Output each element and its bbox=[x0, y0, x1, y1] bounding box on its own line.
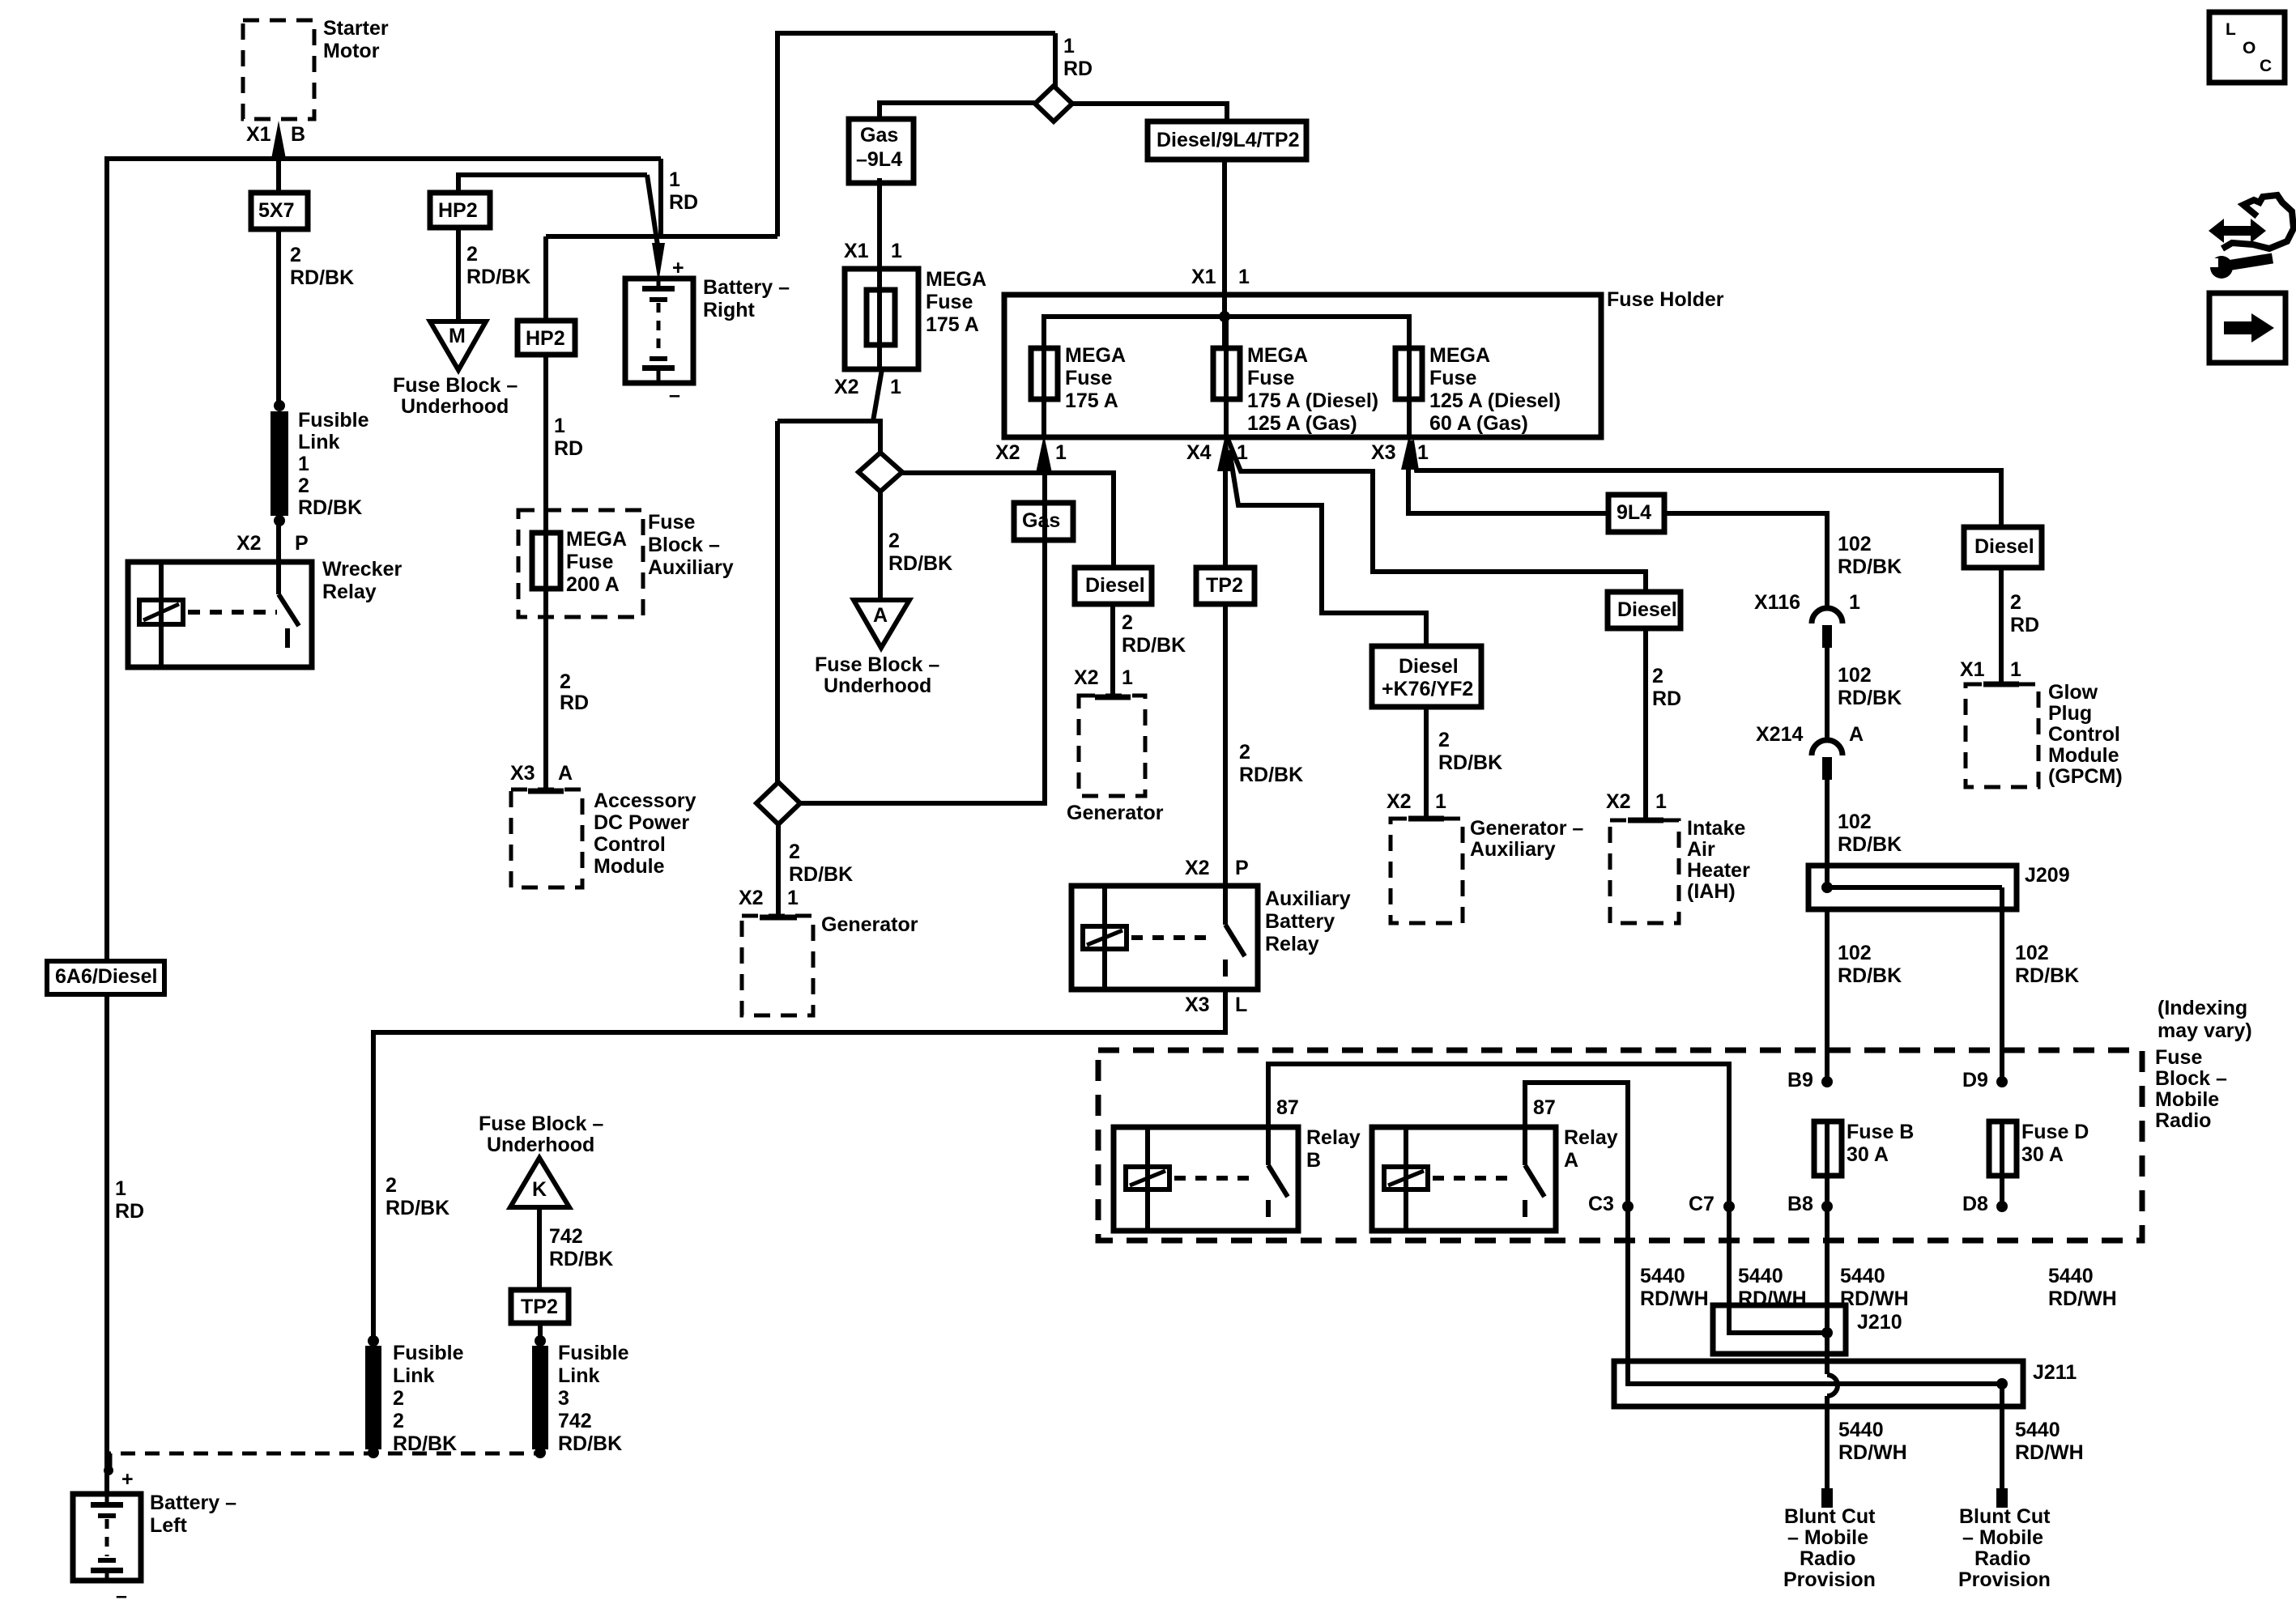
svg-text:2: 2 bbox=[1652, 665, 1663, 687]
svg-text:A: A bbox=[1849, 723, 1864, 746]
svg-text:RD/BK: RD/BK bbox=[789, 863, 853, 886]
pin label 1 X116 bbox=[1849, 591, 1860, 614]
pin label X3 accessory bbox=[510, 762, 535, 785]
wire fuse D to D8 bbox=[2000, 1178, 2004, 1208]
pin label 1 mega fuse bbox=[891, 240, 902, 262]
svg-text:X2: X2 bbox=[1387, 790, 1412, 813]
splice diamond gas mid bbox=[858, 453, 902, 491]
junction dot D8 bbox=[1996, 1201, 2008, 1212]
label 1 RD left rail bbox=[115, 1177, 144, 1223]
svg-text:+: + bbox=[672, 257, 684, 279]
svg-text:2: 2 bbox=[1122, 611, 1133, 634]
label battery left bbox=[150, 1491, 236, 1537]
svg-text:125 A (Gas): 125 A (Gas) bbox=[1247, 412, 1357, 435]
icon forward arrow box bbox=[2209, 293, 2285, 363]
wire HP2 to accessory module bbox=[543, 355, 548, 792]
wire drop into splice S110 bbox=[1053, 33, 1058, 91]
svg-text:Fuse Block –: Fuse Block – bbox=[393, 374, 518, 397]
svg-text:Link: Link bbox=[298, 431, 339, 453]
svg-text:MEGA: MEGA bbox=[1429, 344, 1490, 367]
wire left rail (battery left feed) bbox=[104, 156, 109, 1496]
svg-text:Relay: Relay bbox=[1306, 1126, 1361, 1149]
label 2 RD accessory bbox=[560, 670, 589, 714]
net tag Gas branch bbox=[1014, 503, 1073, 540]
svg-text:Underhood: Underhood bbox=[487, 1134, 594, 1156]
battery left bbox=[73, 1494, 141, 1581]
svg-text:P: P bbox=[1235, 857, 1249, 879]
pin label X2 generator 1 bbox=[739, 887, 764, 909]
wire splice to diesel tag bbox=[1072, 104, 1227, 124]
svg-text:X214: X214 bbox=[1756, 723, 1803, 746]
terminal arrow X3 bbox=[1401, 435, 1417, 470]
svg-text:MEGA: MEGA bbox=[926, 268, 986, 291]
svg-text:RD/BK: RD/BK bbox=[1838, 833, 1902, 856]
wire diamond to diesel tag branch bbox=[902, 473, 1114, 570]
svg-text:Battery –: Battery – bbox=[703, 276, 790, 299]
wire diesel tag to generator 2 bbox=[1110, 604, 1115, 698]
svg-text:Block –: Block – bbox=[2155, 1067, 2227, 1090]
svg-text:Air: Air bbox=[1687, 838, 1715, 861]
label 2 RD/BK starter wire bbox=[290, 244, 354, 289]
svg-text:1: 1 bbox=[1435, 790, 1446, 813]
label 2 RD IAH bbox=[1652, 665, 1681, 710]
svg-text:K: K bbox=[532, 1178, 547, 1201]
svg-text:742: 742 bbox=[549, 1225, 583, 1248]
svg-text:Link: Link bbox=[558, 1364, 599, 1387]
pin label X1 fuse holder bbox=[1191, 266, 1216, 288]
svg-text:M: M bbox=[449, 325, 466, 347]
wire relay A 87 to C3 bbox=[1525, 1083, 1628, 1386]
svg-text:1: 1 bbox=[2010, 658, 2021, 681]
svg-text:6A6/Diesel: 6A6/Diesel bbox=[55, 965, 157, 988]
svg-text:RD/BK: RD/BK bbox=[393, 1432, 457, 1455]
svg-text:X4: X4 bbox=[1186, 441, 1212, 464]
pin label L aux relay bbox=[1235, 994, 1247, 1016]
svg-text:Generator: Generator bbox=[1067, 802, 1164, 824]
fusible link 3 bbox=[532, 1335, 548, 1458]
svg-text:Underhood: Underhood bbox=[824, 674, 931, 697]
svg-text:–9L4: –9L4 bbox=[856, 148, 902, 171]
svg-text:RD: RD bbox=[2010, 614, 2039, 636]
label generator auxiliary bbox=[1470, 817, 1583, 861]
net tag TP2 first bbox=[1196, 568, 1254, 604]
wire main bus from starter/battery-left rail bbox=[107, 156, 661, 161]
svg-text:Module: Module bbox=[594, 855, 665, 878]
fuse D 30A bbox=[1989, 1121, 2017, 1176]
fuse holder box bbox=[1004, 295, 1601, 437]
wire fuse holder X2 wire segment bbox=[1042, 474, 1047, 803]
label 102 RD/BK 3 bbox=[1838, 811, 1902, 856]
svg-text:Mobile: Mobile bbox=[2155, 1088, 2219, 1111]
label C3 bbox=[1588, 1193, 1614, 1215]
label fuse block mobile radio bbox=[2155, 1046, 2227, 1132]
wire X3 to 9L4 bbox=[1408, 444, 1827, 610]
svg-text:Starter: Starter bbox=[323, 17, 389, 40]
label fusible link 1 bbox=[298, 409, 369, 519]
terminal arrow into starter bbox=[271, 121, 286, 159]
svg-text:2: 2 bbox=[1239, 741, 1250, 764]
svg-text:RD/BK: RD/BK bbox=[888, 552, 952, 575]
net tag Diesel IAH bbox=[1608, 592, 1680, 628]
wire riser to top line bbox=[775, 31, 780, 236]
wire D column to blunt cut bbox=[2000, 1384, 2004, 1491]
inline connector X214 bbox=[1812, 740, 1842, 780]
wire branch to gas diamond bbox=[777, 421, 880, 455]
label MEGA fuse 200A bbox=[566, 528, 627, 596]
svg-text:MEGA: MEGA bbox=[1065, 344, 1126, 367]
svg-text:2: 2 bbox=[386, 1174, 397, 1197]
svg-text:5440: 5440 bbox=[1840, 1265, 1885, 1287]
svg-text:Radio: Radio bbox=[2155, 1109, 2211, 1132]
wire X116 to X214 bbox=[1825, 648, 1830, 742]
wire 1 RD diagonal to battery right bbox=[647, 175, 658, 245]
svg-text:RD/BK: RD/BK bbox=[386, 1197, 449, 1219]
svg-text:742: 742 bbox=[558, 1410, 592, 1432]
pin label P wrecker bbox=[295, 532, 309, 555]
junction dot J211 bbox=[1996, 1378, 2008, 1389]
wire aux relay X3 to bus bbox=[373, 989, 1225, 1343]
pin label X2 generator 2 bbox=[1074, 666, 1099, 689]
svg-text:may vary): may vary) bbox=[2158, 1019, 2252, 1042]
label 87 relay B bbox=[1276, 1096, 1299, 1119]
svg-text:Fuse B: Fuse B bbox=[1847, 1121, 1914, 1143]
svg-text:RD/BK: RD/BK bbox=[1239, 764, 1303, 786]
svg-text:C: C bbox=[2260, 57, 2272, 75]
pin label X4 holder bbox=[1186, 441, 1212, 464]
wire HP2 branch top bbox=[458, 175, 647, 195]
svg-text:C7: C7 bbox=[1689, 1193, 1715, 1215]
wire fuse holder bracket bbox=[1044, 317, 1409, 350]
svg-text:1: 1 bbox=[115, 1177, 126, 1200]
label 1 RD hp2 wire bbox=[554, 415, 583, 460]
pin label 1 holder gas bbox=[1055, 441, 1067, 464]
svg-text:1: 1 bbox=[891, 240, 902, 262]
svg-text:1: 1 bbox=[890, 376, 901, 398]
dashed wire battery left to fusible links bbox=[110, 1453, 541, 1467]
svg-text:C3: C3 bbox=[1588, 1193, 1614, 1215]
net tag Diesel/9L4/TP2 bbox=[1148, 121, 1306, 160]
label fuse B bbox=[1847, 1121, 1914, 1166]
label starter motor bbox=[323, 17, 389, 62]
wire K76 tag to generator aux bbox=[1424, 707, 1429, 818]
splice diamond top bbox=[1035, 86, 1072, 121]
wire J209 left leg to B9 bbox=[1825, 909, 1830, 1083]
fuse holder fuse 2 bbox=[1213, 317, 1240, 437]
pin label 1 mega fuse bottom bbox=[890, 376, 901, 398]
wire 5X7 to fusible link 1 bbox=[276, 229, 281, 402]
pin label B bbox=[291, 123, 305, 146]
label relay B bbox=[1306, 1126, 1361, 1172]
svg-text:–: – bbox=[116, 1585, 127, 1607]
svg-text:Diesel: Diesel bbox=[1974, 535, 2034, 558]
net tag Diesel +K76/YF2 bbox=[1372, 646, 1481, 707]
svg-text:RD: RD bbox=[1063, 57, 1093, 80]
label 5440 RD/WH b8 bbox=[1840, 1265, 1909, 1310]
pin label 1 holder X4 bbox=[1237, 441, 1248, 464]
svg-text:RD: RD bbox=[560, 691, 589, 714]
label fuse block underhood K bbox=[479, 1113, 603, 1156]
junction dot fuse holder bbox=[1219, 311, 1230, 322]
label 87 relay A bbox=[1533, 1096, 1556, 1119]
label fusible link 2 bbox=[393, 1342, 464, 1455]
svg-text:200 A: 200 A bbox=[566, 573, 620, 596]
svg-text:X2: X2 bbox=[236, 532, 262, 555]
wire bus to HP2 second bbox=[543, 236, 548, 321]
svg-text:Fusible: Fusible bbox=[393, 1342, 464, 1364]
junction dot B9 bbox=[1821, 1076, 1833, 1087]
label blunt cut B bbox=[1783, 1505, 1876, 1591]
svg-text:Relay: Relay bbox=[1564, 1126, 1618, 1149]
label indexing may vary bbox=[2158, 997, 2252, 1042]
svg-text:102: 102 bbox=[1838, 942, 1872, 964]
svg-text:X3: X3 bbox=[1371, 441, 1396, 464]
svg-text:B9: B9 bbox=[1787, 1069, 1813, 1091]
svg-text:Intake: Intake bbox=[1687, 817, 1745, 840]
svg-text:5440: 5440 bbox=[2015, 1419, 2060, 1441]
svg-text:RD/BK: RD/BK bbox=[1438, 751, 1502, 774]
wire TP2 to fusible link 3 bbox=[538, 1323, 543, 1343]
svg-text:RD: RD bbox=[1652, 687, 1681, 710]
label D9 bbox=[1962, 1069, 1988, 1091]
svg-text:2: 2 bbox=[393, 1410, 404, 1432]
svg-text:1: 1 bbox=[1122, 666, 1133, 689]
svg-text:(Indexing: (Indexing bbox=[2158, 997, 2247, 1019]
relay A bbox=[1372, 1127, 1556, 1231]
net tag Diesel generator 2 bbox=[1075, 568, 1152, 604]
svg-text:Control: Control bbox=[2048, 723, 2120, 746]
svg-text:Fuse D: Fuse D bbox=[2021, 1121, 2089, 1143]
svg-text:Gas: Gas bbox=[860, 124, 898, 147]
fuse block underhood M triangle bbox=[430, 321, 486, 370]
connector HP2 second bbox=[518, 321, 575, 355]
svg-text:175 A (Diesel): 175 A (Diesel) bbox=[1247, 389, 1378, 412]
svg-text:Auxiliary: Auxiliary bbox=[1470, 838, 1556, 861]
svg-text:X2: X2 bbox=[834, 376, 859, 398]
svg-text:X2: X2 bbox=[1074, 666, 1099, 689]
svg-text:Battery: Battery bbox=[1265, 910, 1335, 933]
terminal arrow X4 bbox=[1217, 435, 1233, 471]
svg-text:Fuse: Fuse bbox=[1429, 367, 1476, 389]
label generator 2 bbox=[1067, 802, 1164, 824]
label 5440 RD/WH b lower bbox=[1838, 1419, 1907, 1464]
label fuse block underhood M bbox=[393, 374, 518, 418]
generator 1 dashed box bbox=[742, 916, 813, 1015]
svg-text:RD/BK: RD/BK bbox=[558, 1432, 622, 1455]
svg-text:102: 102 bbox=[2015, 942, 2049, 964]
wire X214 to J209 bbox=[1825, 780, 1830, 887]
wire diamond to A triangle bbox=[878, 491, 883, 600]
svg-text:RD/WH: RD/WH bbox=[1640, 1287, 1709, 1310]
svg-text:RD/BK: RD/BK bbox=[1838, 687, 1902, 709]
label 742 RD/BK bbox=[549, 1225, 613, 1270]
label wrecker relay bbox=[322, 558, 402, 603]
label 2 RD/BK gas mid bbox=[888, 530, 952, 575]
svg-text:Fuse Block –: Fuse Block – bbox=[479, 1113, 603, 1135]
svg-text:Diesel: Diesel bbox=[1399, 655, 1459, 678]
svg-text:Fuse: Fuse bbox=[1247, 367, 1294, 389]
icon wiring harness wrench bbox=[2208, 195, 2294, 279]
label fusible link 3 bbox=[558, 1342, 629, 1455]
svg-text:RD/BK: RD/BK bbox=[466, 266, 530, 288]
pin label X2 holder bbox=[995, 441, 1020, 464]
fuse B 30A bbox=[1814, 1121, 1842, 1176]
svg-text:+K76/YF2: +K76/YF2 bbox=[1382, 678, 1473, 700]
svg-text:A: A bbox=[558, 762, 573, 785]
svg-text:Plug: Plug bbox=[2048, 702, 2092, 725]
relay auxiliary battery bbox=[1071, 886, 1258, 989]
svg-text:Fuse: Fuse bbox=[566, 551, 613, 573]
svg-text:RD/BK: RD/BK bbox=[1838, 555, 1902, 578]
svg-text:O: O bbox=[2243, 39, 2256, 57]
label 102 RD/BK 4 bbox=[1838, 942, 1902, 987]
junction dot battery left positive bbox=[104, 1466, 113, 1475]
pin label X3 holder bbox=[1371, 441, 1396, 464]
svg-text:Motor: Motor bbox=[323, 40, 380, 62]
inline connector X116 bbox=[1812, 608, 1842, 648]
junction dot C7 bbox=[1723, 1201, 1735, 1212]
svg-text:2: 2 bbox=[290, 244, 301, 266]
svg-text:30 A: 30 A bbox=[1847, 1143, 1889, 1166]
wire X4 main to TP2 bbox=[1223, 468, 1228, 570]
label intake air heater bbox=[1687, 817, 1750, 903]
svg-text:Diesel: Diesel bbox=[1085, 574, 1145, 597]
svg-text:2: 2 bbox=[1438, 729, 1450, 751]
label C7 bbox=[1689, 1193, 1715, 1215]
net tag 9L4 bbox=[1608, 495, 1664, 532]
pin label 1 GPCM bbox=[2010, 658, 2021, 681]
svg-text:9L4: 9L4 bbox=[1617, 501, 1651, 524]
svg-text:X3: X3 bbox=[1185, 994, 1210, 1016]
svg-text:Blunt Cut: Blunt Cut bbox=[1959, 1505, 2051, 1528]
glow plug control module dashed box bbox=[1966, 684, 2038, 787]
svg-text:J211: J211 bbox=[2033, 1361, 2077, 1384]
wire X3 to GPCM tag bbox=[1412, 440, 2001, 530]
label mega fuse holder 3 bbox=[1429, 344, 1561, 435]
svg-text:X1: X1 bbox=[844, 240, 869, 262]
svg-text:5440: 5440 bbox=[2048, 1265, 2094, 1287]
svg-text:MEGA: MEGA bbox=[1247, 344, 1308, 367]
svg-text:Blunt Cut: Blunt Cut bbox=[1784, 1505, 1876, 1528]
svg-text:L: L bbox=[1235, 994, 1247, 1016]
fuse block underhood A triangle bbox=[854, 600, 909, 648]
svg-text:Heater: Heater bbox=[1687, 859, 1750, 882]
svg-text:Wrecker: Wrecker bbox=[322, 558, 402, 581]
blunt cut terminal D bbox=[1996, 1488, 2008, 1508]
svg-text:2: 2 bbox=[888, 530, 900, 552]
svg-text:RD/BK: RD/BK bbox=[1122, 634, 1186, 657]
svg-text:Link: Link bbox=[393, 1364, 434, 1387]
label 5440 RD/WH c7 bbox=[1738, 1265, 1807, 1310]
svg-text:Underhood: Underhood bbox=[401, 395, 509, 418]
net tag Diesel GPCM bbox=[1964, 527, 2042, 568]
svg-text:2: 2 bbox=[298, 474, 309, 497]
wire gas branch lower bbox=[800, 473, 1045, 803]
pin label 1 holder X3 bbox=[1417, 441, 1429, 464]
svg-text:2: 2 bbox=[560, 670, 571, 693]
fusible link 1 bbox=[270, 400, 288, 526]
junction dot C3 bbox=[1622, 1201, 1634, 1212]
wire K to TP2 bbox=[537, 1207, 542, 1292]
svg-text:X1: X1 bbox=[246, 123, 271, 146]
fuse block auxiliary dashed box bbox=[518, 510, 643, 617]
label B8 bbox=[1787, 1193, 1813, 1215]
pin label 1 generator aux bbox=[1435, 790, 1446, 813]
wire mega fuse kink bbox=[873, 369, 882, 421]
svg-text:RD/BK: RD/BK bbox=[298, 496, 362, 519]
connector label X214 bbox=[1756, 723, 1803, 746]
svg-text:Relay: Relay bbox=[1265, 933, 1319, 955]
pin label X2 wrecker bbox=[236, 532, 262, 555]
svg-text:1: 1 bbox=[1417, 441, 1429, 464]
pin label X1 bbox=[246, 123, 271, 146]
junction dot D9 bbox=[1996, 1076, 2008, 1087]
pin label X2 IAH bbox=[1606, 790, 1631, 813]
svg-text:Auxiliary: Auxiliary bbox=[1265, 887, 1351, 910]
svg-text:Provision: Provision bbox=[1958, 1568, 2051, 1591]
svg-text:5440: 5440 bbox=[1738, 1265, 1783, 1287]
svg-text:Battery –: Battery – bbox=[150, 1491, 236, 1514]
pin label X2 aux relay bbox=[1185, 857, 1210, 879]
svg-text:102: 102 bbox=[1838, 664, 1872, 687]
svg-text:125 A (Diesel): 125 A (Diesel) bbox=[1429, 389, 1561, 412]
relay K38 wrecker relay bbox=[128, 562, 312, 667]
svg-text:87: 87 bbox=[1276, 1096, 1299, 1119]
label + battery left bbox=[121, 1468, 134, 1491]
label 5440 RD/WH c3 bbox=[1640, 1265, 1709, 1310]
label - battery left bbox=[116, 1585, 127, 1607]
label fuse block auxiliary bbox=[648, 511, 734, 579]
fuse MEGA 200A bbox=[532, 533, 560, 589]
svg-text:Provision: Provision bbox=[1783, 1568, 1876, 1591]
svg-text:MEGA: MEGA bbox=[566, 528, 627, 551]
svg-text:(IAH): (IAH) bbox=[1687, 880, 1736, 903]
battery right bbox=[625, 279, 693, 383]
svg-text:RD/BK: RD/BK bbox=[1838, 964, 1902, 987]
svg-text:(GPCM): (GPCM) bbox=[2048, 765, 2123, 788]
svg-text:B8: B8 bbox=[1787, 1193, 1813, 1215]
label 2 RD/BK aux relay bbox=[1239, 741, 1303, 786]
fuse block underhood K triangle bbox=[510, 1158, 569, 1207]
svg-text:2: 2 bbox=[466, 243, 478, 266]
svg-text:Fuse Holder: Fuse Holder bbox=[1607, 288, 1724, 311]
svg-text:175 A: 175 A bbox=[926, 313, 979, 336]
svg-text:Glow: Glow bbox=[2048, 681, 2098, 704]
svg-text:2: 2 bbox=[2010, 591, 2021, 614]
svg-text:RD/BK: RD/BK bbox=[549, 1248, 613, 1270]
wire J209 right leg to D9 bbox=[2000, 887, 2004, 1083]
svg-text:5X7: 5X7 bbox=[258, 199, 294, 222]
svg-text:Fuse: Fuse bbox=[648, 511, 695, 534]
label 2 RD/BK generator aux bbox=[1438, 729, 1502, 774]
label fuse holder bbox=[1607, 288, 1724, 311]
label 5440 RD/WH d8 bbox=[2048, 1265, 2117, 1310]
wire left gas riser bbox=[775, 421, 780, 785]
svg-text:– Mobile: – Mobile bbox=[1787, 1526, 1868, 1549]
label 1 RD battery right bbox=[669, 168, 698, 214]
wire B8 to J210 bbox=[1825, 1206, 1830, 1374]
label 2 RD/BK generator 2 bbox=[1122, 611, 1186, 657]
svg-text:X2: X2 bbox=[1185, 857, 1210, 879]
svg-text:TP2: TP2 bbox=[521, 1296, 558, 1318]
pin label X3 aux relay bbox=[1185, 994, 1210, 1016]
svg-text:Block –: Block – bbox=[648, 534, 720, 556]
pin label X2 generator aux bbox=[1387, 790, 1412, 813]
connector 5X7 box bbox=[251, 193, 308, 229]
label 2 RD/BK generator 1 bbox=[789, 840, 853, 886]
svg-text:RD/WH: RD/WH bbox=[1838, 1441, 1907, 1464]
terminal arrow gas into fuse holder bbox=[1036, 435, 1052, 473]
pin label P aux relay bbox=[1235, 857, 1249, 879]
